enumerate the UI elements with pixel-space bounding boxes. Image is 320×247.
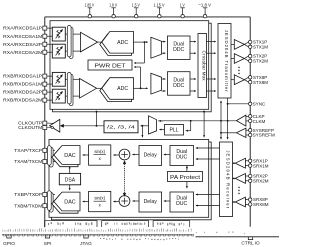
wire summer to sin A: [113, 154, 119, 156]
PWR DET block: [88, 60, 132, 70]
TX section box (stacked): [52, 142, 212, 220]
ADC A (stacked): [100, 34, 132, 56]
svg-text:Crossbar Mux: Crossbar Mux: [202, 51, 207, 82]
sin(x)/x block A: [89, 145, 111, 165]
PA Protect block: [168, 172, 203, 182]
svg-text:SYSREFM: SYSREFM: [253, 133, 275, 138]
attenuator DSA A2: [52, 44, 65, 58]
pin TXAP/TXCP: [47, 149, 55, 151]
svg-text:PA Protect: PA Protect: [170, 175, 201, 181]
clock drop to TX box: [141, 126, 143, 137]
wire attenB out: [65, 78, 79, 80]
power pin 1.85 V: [89, 8, 91, 15]
pin RXB/RXDDSA1M: [47, 83, 53, 85]
svg-text:SRX1M: SRX1M: [253, 163, 269, 168]
wires into PWR DET: [134, 62, 144, 64]
wire ampA to ADC: [98, 41, 102, 43]
amplifier RXB: [80, 79, 97, 99]
svg-text:DUC: DUC: [176, 201, 187, 207]
PLL block: [165, 125, 184, 136]
DSA block: [59, 173, 80, 184]
svg-text:SRX2M: SRX2M: [253, 179, 269, 184]
svg-text:STX2M: STX2M: [253, 59, 268, 64]
svg-text:RXB/RXDDSA1P: RXB/RXDDSA1P: [3, 74, 42, 79]
svg-text:1 V: 1 V: [180, 2, 186, 8]
wires mux to DDC B: [162, 78, 166, 80]
PA Protect wires: [186, 166, 188, 170]
svg-text:DDC: DDC: [173, 83, 184, 89]
TX switch network A (stacked): [49, 148, 53, 168]
ellipsis SRX: [238, 187, 239, 188]
attenuator DSA B2: [52, 89, 65, 103]
tiny bottom pin labels row: [2, 230, 5, 232]
PLL out to clock mux: [159, 129, 164, 131]
pin RXB/RXDDSA2P: [47, 91, 53, 93]
wire divider to CLKOUT buffer: [63, 125, 104, 127]
wire ADC A out: [134, 41, 148, 43]
ellipsis STX: [238, 67, 239, 68]
wires mux to DDC A: [162, 41, 166, 43]
JESD clock verticals: [220, 101, 222, 121]
amplifier RXA: [81, 32, 98, 52]
pin RXA/RXCDSA1M: [47, 35, 53, 37]
wire attenA out: [65, 33, 80, 35]
pin TXBM/TXDM: [47, 205, 55, 207]
bottom pin group brackets: [45, 221, 97, 227]
PLL input from rail: [190, 121, 192, 131]
svg-text:sin(x): sin(x): [94, 149, 105, 154]
Crossbar Mux block: [198, 34, 207, 98]
svg-text:JESD204B Transmitter: JESD204B Transmitter: [224, 30, 229, 93]
wire summer to sin B: [113, 201, 119, 203]
svg-text:1.85 V: 1.85 V: [85, 2, 95, 8]
svg-text:TXBP/TXDP: TXBP/TXDP: [14, 192, 42, 197]
Dual DUC B: [170, 192, 194, 212]
svg-text:JTAG: JTAG: [80, 241, 92, 246]
svg-text:GPIO: GPIO: [3, 241, 15, 246]
wire delay to summer B: [133, 200, 140, 202]
DAC B (stacked): [52, 194, 78, 213]
wire sin to DAC A: [83, 154, 89, 156]
wire ADC B out: [134, 87, 148, 89]
mux RXB: [151, 73, 162, 94]
power pin 1.15 V: [158, 8, 160, 15]
wire DUC to delay A: [164, 154, 170, 156]
mux out wire: [141, 125, 149, 127]
wire RX box to TX box clock: [203, 112, 205, 138]
svg-text:DUC: DUC: [176, 155, 187, 161]
PWR DET tap verticals: [144, 42, 146, 63]
bottom pin row line: [2, 234, 194, 236]
SYSREF input buffer: [236, 128, 246, 137]
chip outline: [45, 16, 250, 18]
driver STX1: [231, 43, 234, 45]
Dual DUC A: [170, 146, 194, 166]
svg-text:CLKM: CLKM: [253, 119, 266, 124]
CLKOUT buffer: [50, 119, 60, 132]
svg-text:TXAM/TXCM: TXAM/TXCM: [14, 159, 42, 164]
group notches: [7, 235, 11, 238]
DAC A (stacked): [52, 148, 78, 167]
mux RXA: [151, 37, 162, 58]
CTRL IO bracket: [196, 236, 280, 238]
TX switch network B (stacked): [49, 193, 53, 213]
pin TXBP/TXDP: [47, 194, 55, 196]
sin(x)/x block B: [89, 191, 111, 211]
svg-text:PWR DET: PWR DET: [95, 63, 127, 69]
svg-text:SRX8M: SRX8M: [253, 202, 269, 207]
svg-text:RXB/RXDDSA1M: RXB/RXDDSA1M: [3, 82, 42, 87]
pin RXB/RXDDSA2M: [47, 99, 53, 101]
pin RXA/RXCDSA2M: [47, 51, 53, 53]
svg-text:CLKOUTM: CLKOUTM: [18, 125, 42, 130]
ADC B (stacked): [100, 80, 132, 102]
pin TXAM/TXCM: [47, 161, 55, 163]
svg-text:Delay: Delay: [144, 199, 158, 205]
svg-text:ADC: ADC: [117, 86, 128, 92]
clock rail: [158, 120, 236, 122]
Dual DDC B: [168, 72, 191, 96]
RX switch network A (stacked): [69, 27, 73, 58]
svg-text:RXB/RXDDSA2P: RXB/RXDDSA2P: [3, 90, 42, 95]
wire DUC to delay B: [164, 200, 170, 202]
svg-text:DAC: DAC: [64, 199, 75, 205]
pins SRX1P SRX1M: [245, 160, 248, 162]
svg-text:RXA/RXCDSA2M: RXA/RXCDSA2M: [3, 50, 42, 55]
svg-text:sin(x): sin(x): [94, 195, 105, 200]
divider block /2 /3 /4: [104, 121, 138, 133]
svg-text:RXA/RXCDSA1P: RXA/RXCDSA1P: [3, 26, 42, 31]
driver STX8: [231, 79, 234, 81]
pins SRX2P SRX2M: [245, 175, 248, 177]
svg-text:RXB/RXDDSA2M: RXB/RXDDSA2M: [3, 98, 42, 103]
pin RXB/RXDDSA1P: [47, 75, 53, 77]
pins SYSREFP SYSREFM: [246, 129, 249, 131]
wires crossbar to JESD TX: [207, 41, 216, 43]
svg-text:/2, /3, /4: /2, /3, /4: [107, 125, 136, 130]
svg-text:1.15 V: 1.15 V: [154, 2, 166, 8]
RX switch network B (stacked): [69, 74, 73, 105]
power pin 1.8 V: [113, 8, 115, 15]
svg-text:1.5 V: 1.5 V: [132, 2, 141, 8]
pins SRX8P SRX8M: [245, 199, 248, 201]
pins STX1P STX1M: [244, 42, 248, 44]
Delay block A: [139, 146, 162, 166]
summer A: [119, 149, 130, 160]
bracket inner tiny text: [48, 223, 49, 225]
svg-text:TXBM/TXDM: TXBM/TXDM: [14, 203, 42, 208]
receiver SRX8: [235, 197, 245, 207]
receiver SRX1: [235, 158, 245, 168]
CLK input buffer: [236, 115, 246, 126]
svg-text:TXAP/TXCP: TXAP/TXCP: [14, 148, 42, 153]
wire sin to DAC B: [83, 201, 89, 203]
svg-text:−1.8 V: −1.8 V: [198, 2, 211, 8]
pins STX2P STX2M: [244, 56, 248, 58]
pins CLKOUTP CLKOUTM: [43, 121, 47, 125]
Delay block B: [139, 192, 162, 212]
wires JESD RX to DUC: [196, 147, 220, 149]
svg-text:ADC: ADC: [117, 40, 128, 46]
RX section box (stacked): [53, 23, 212, 112]
summer B: [119, 196, 130, 207]
driver STX2: [231, 58, 234, 60]
wire ampB to ADC: [97, 87, 102, 89]
svg-text:JESD204B Receiver: JESD204B Receiver: [225, 150, 230, 209]
Dual DDC A: [168, 36, 191, 60]
bottom pin squares: [4, 234, 6, 236]
wires DDC to crossbar: [190, 41, 196, 43]
svg-text:DAC: DAC: [64, 153, 75, 159]
DSA wires: [69, 166, 71, 173]
svg-text:SPI: SPI: [44, 241, 52, 246]
svg-text:RXA/RXCDSA1M: RXA/RXCDSA1M: [3, 34, 42, 39]
pins STX8P STX8M: [244, 77, 248, 79]
NCO dashed link: [124, 164, 126, 193]
pin RXA/RXCDSA1P: [47, 27, 53, 29]
pin SYNC: [228, 103, 249, 105]
svg-text:1.8 V: 1.8 V: [109, 2, 118, 8]
svg-text:DDC: DDC: [173, 47, 184, 53]
svg-text:RXA/RXCDSA2P: RXA/RXCDSA2P: [3, 42, 42, 47]
svg-text:STX1M: STX1M: [253, 45, 268, 50]
rail into clock mux: [159, 120, 163, 122]
pins CLKP CLKM: [246, 115, 249, 117]
JESD204B Transmitter block: [218, 24, 231, 99]
svg-text:DSA: DSA: [65, 178, 76, 184]
svg-text:Delay: Delay: [144, 152, 158, 158]
svg-text:CTRL IO: CTRL IO: [241, 241, 260, 246]
power pin 1.5 V: [135, 8, 137, 15]
receiver SRX2: [235, 174, 245, 184]
svg-text:SYNC: SYNC: [253, 102, 266, 107]
power pin 1 V: [182, 8, 184, 15]
attenuator DSA B1: [52, 72, 65, 86]
clock mux: [149, 116, 157, 134]
svg-text:STX8M: STX8M: [253, 80, 268, 85]
power pin -1.8 V: [204, 8, 206, 15]
JESD204B Receiver block: [220, 142, 233, 217]
svg-text:PLL: PLL: [169, 128, 178, 134]
wire delay to summer A: [133, 154, 140, 156]
wire RX box to clock line: [96, 112, 98, 126]
pin RXA/RXCDSA2P: [47, 43, 53, 45]
attenuator DSA A1: [52, 27, 65, 41]
